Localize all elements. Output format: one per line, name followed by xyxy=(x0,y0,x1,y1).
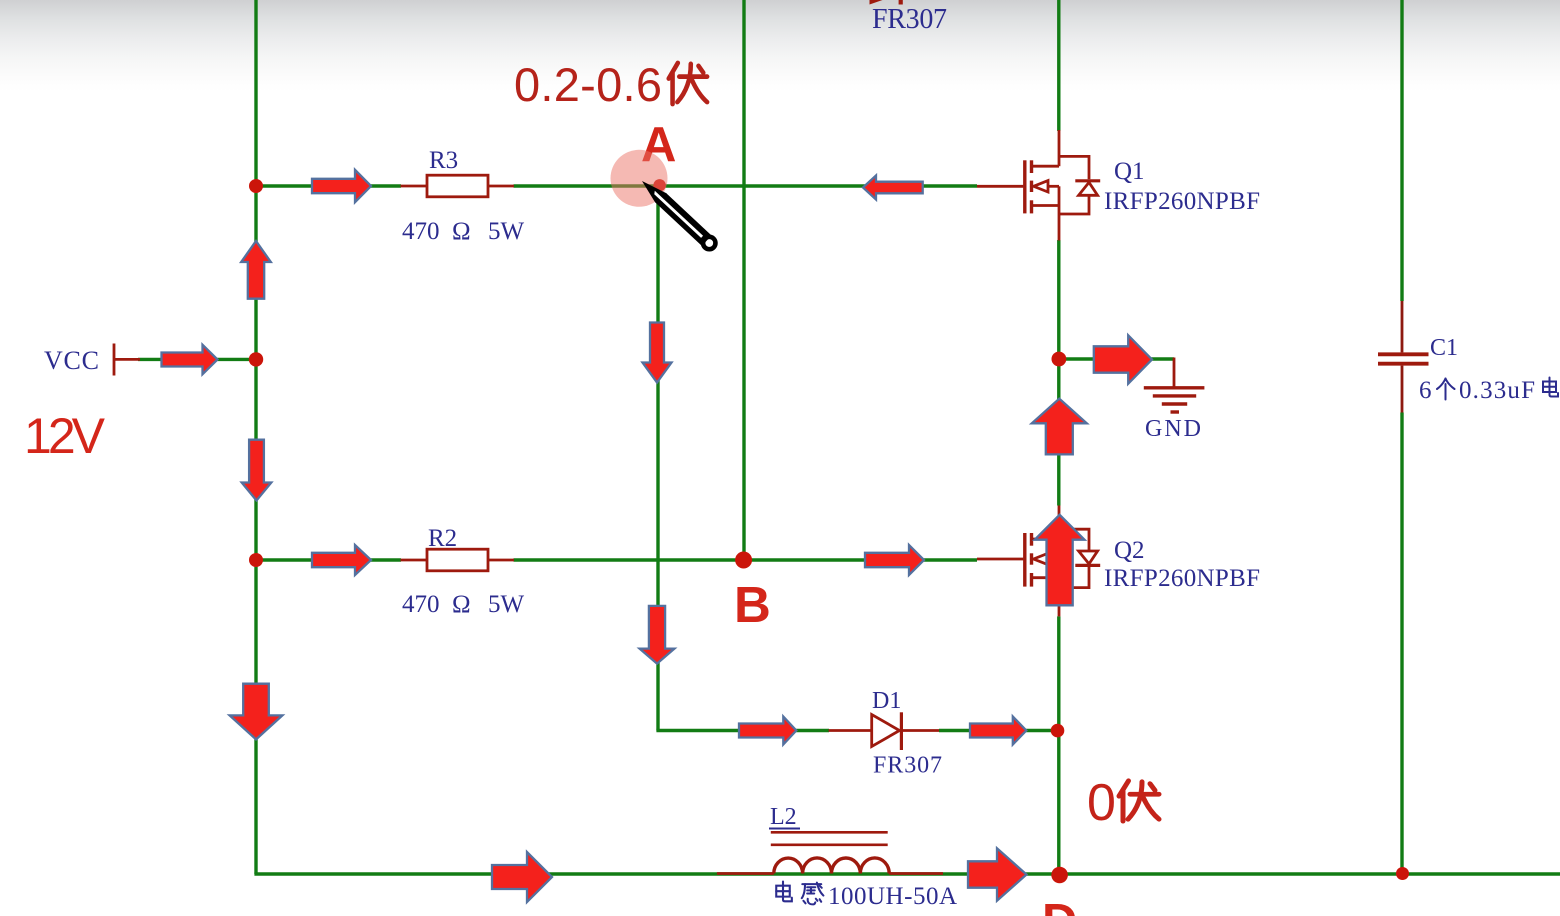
svg-text:C1: C1 xyxy=(1430,335,1458,361)
current arrow: into D1 right xyxy=(739,717,796,745)
label 电感100UH-50A (L2 value) xyxy=(776,882,792,902)
current arrow: toward Q2 gate right xyxy=(865,545,924,575)
current arrow: toward node A (left, Q1 row) xyxy=(863,176,923,200)
node: VCC / left rail xyxy=(249,352,263,366)
svg-text:470Ω5W: 470Ω5W xyxy=(402,591,525,618)
wire: left VCC rail vertical x=256 xyxy=(254,0,257,874)
wire: C1 column below xyxy=(1400,413,1403,875)
wire: D1 cathode to Q2 source column xyxy=(939,729,1059,732)
node: C1 / bottom rail junction xyxy=(1396,867,1409,880)
current arrow: left rail down mid xyxy=(242,440,272,501)
Q2 gate arrowhead xyxy=(1034,553,1049,564)
wire: GND branch horizontal xyxy=(1059,357,1174,360)
resistor R3 xyxy=(401,175,515,197)
svg-text:FR307: FR307 xyxy=(872,4,947,35)
svg-text:0.33uF: 0.33uF xyxy=(1459,377,1535,404)
svg-text:R2: R2 xyxy=(428,525,457,552)
current arrow: node A column down upper xyxy=(643,323,672,383)
svg-text:VCC: VCC xyxy=(44,346,99,375)
svg-text:IRFP260NPBF: IRFP260NPBF xyxy=(1104,188,1260,215)
annotation 伏 of 0伏 xyxy=(1119,781,1159,821)
current arrow: node A column down lower xyxy=(640,606,675,664)
node A junction dot xyxy=(653,179,665,191)
node: R2 row / left rail xyxy=(249,553,263,567)
Q1 body diode triangle xyxy=(1079,182,1098,195)
wire: node A vertical drop x=658 xyxy=(656,186,659,731)
wire: R3 row right segment to Q1 gate xyxy=(514,184,978,187)
current arrow: into R3 right xyxy=(312,170,371,202)
svg-text:Q1: Q1 xyxy=(1114,158,1145,185)
wire: Q2 source down to bottom rail xyxy=(1057,616,1060,874)
current arrow: up into GND node xyxy=(1032,399,1087,455)
wire: node A corner to D1 row xyxy=(656,729,829,732)
diode D1 xyxy=(829,712,939,750)
node: GND branch junction xyxy=(1052,352,1067,367)
current arrow: after D1 right xyxy=(970,717,1026,745)
current arrow: bottom rail right 1 xyxy=(492,852,552,902)
wire: VCC feed horizontal xyxy=(138,358,256,361)
wire: bottom rail horizontal y=874 xyxy=(254,872,1560,875)
svg-text:L2: L2 xyxy=(770,804,797,830)
transistor Q1 (N-MOSFET with body diode) xyxy=(977,130,1100,241)
node: D1 / Q2 source junction xyxy=(1051,724,1065,738)
mouse cursor (pen pointer) xyxy=(637,175,718,252)
capacitor C1 xyxy=(1378,301,1429,413)
Q1 gate arrowhead xyxy=(1034,181,1049,192)
resistor R2 xyxy=(401,549,515,571)
svg-text:0: 0 xyxy=(1087,774,1116,832)
wire: Q1 source to Q2 drain column xyxy=(1057,240,1060,506)
svg-text:GND: GND xyxy=(1145,416,1201,442)
svg-text:D: D xyxy=(1042,895,1077,916)
wire: mid column above Q1 drain xyxy=(1057,0,1060,131)
wire: R3 row left segment xyxy=(256,184,401,187)
svg-text:6: 6 xyxy=(1419,377,1432,404)
svg-text:12V: 12V xyxy=(24,408,106,464)
node: R3 row / left rail xyxy=(249,179,263,193)
wire: top vertical into node B x=744 xyxy=(742,0,745,560)
node D junction (bottom rail) xyxy=(1051,867,1068,884)
svg-text:FR307: FR307 xyxy=(873,753,942,779)
svg-text:R3: R3 xyxy=(429,147,458,174)
current arrow: VCC feed right xyxy=(162,345,218,375)
partial diode at top edge (cut off) xyxy=(870,0,898,5)
current arrow: left rail down large xyxy=(230,684,283,740)
wire: R2 row right segment to Q2 gate xyxy=(514,558,978,561)
transistor Q2 (N-MOSFET with body diode) xyxy=(977,506,1100,617)
svg-text:IRFP260NPBF: IRFP260NPBF xyxy=(1104,565,1260,592)
ground GND xyxy=(1144,358,1205,413)
wire: C1 column above xyxy=(1400,0,1403,301)
svg-text:100UH-50A: 100UH-50A xyxy=(828,883,957,910)
current arrow: left rail up toward R3 xyxy=(241,241,271,299)
inductor L2 xyxy=(717,832,943,873)
wire: R2 row left segment xyxy=(256,558,401,561)
annotation 0.2-0.6伏 xyxy=(514,58,707,111)
svg-text:D1: D1 xyxy=(872,688,901,714)
current arrow: into GND right xyxy=(1094,335,1152,383)
current arrow: bottom rail right 2 (into node D) xyxy=(968,848,1027,900)
svg-text:0.2-0.6: 0.2-0.6 xyxy=(514,58,662,111)
highlight circle at node A xyxy=(611,150,668,207)
current arrow: up through Q2 xyxy=(1035,515,1085,606)
svg-text:Q2: Q2 xyxy=(1114,537,1145,564)
VCC port symbol xyxy=(114,344,140,376)
node B junction dot xyxy=(735,552,752,569)
current arrow: into R2 right xyxy=(312,545,371,575)
svg-text:B: B xyxy=(734,576,771,633)
Q2 body diode triangle xyxy=(1079,551,1098,564)
svg-text:470Ω5W: 470Ω5W xyxy=(402,218,525,245)
